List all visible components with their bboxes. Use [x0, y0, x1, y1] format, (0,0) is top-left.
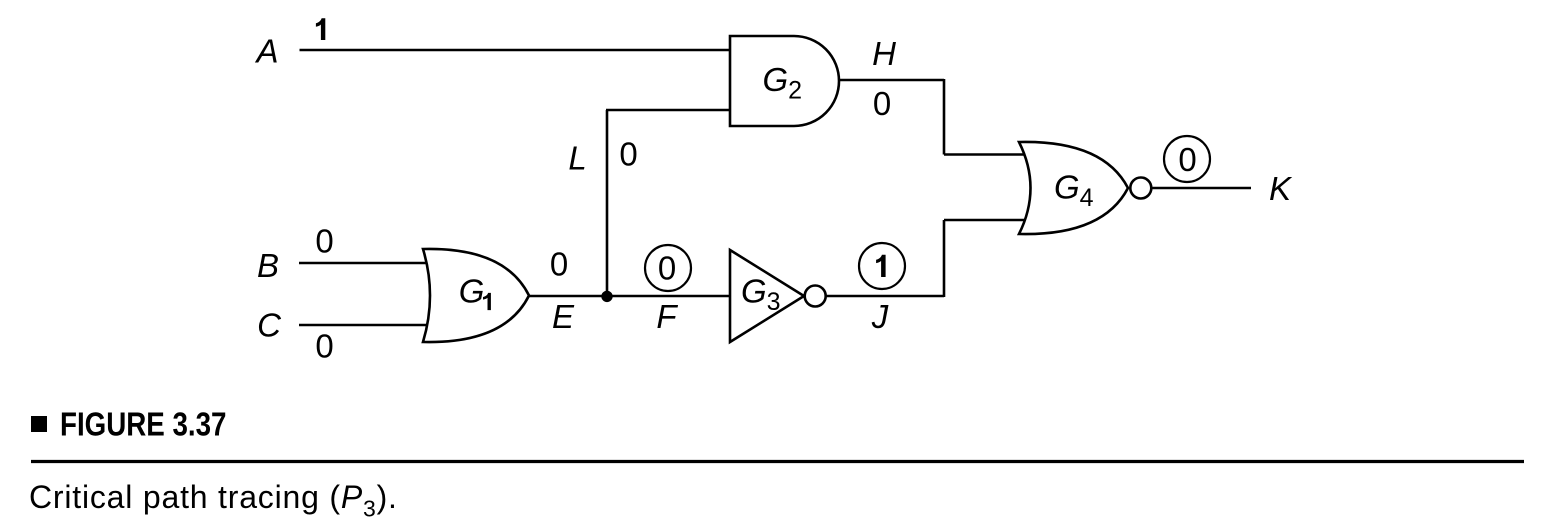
- wire L vertical (junction up): [606, 110, 609, 297]
- wire C input: [299, 324, 433, 327]
- value circle at node K: [1164, 136, 1210, 182]
- node E junction dot: [601, 291, 612, 302]
- and-gate G2 body: [730, 36, 839, 126]
- wire H vertical: [943, 79, 946, 155]
- svg-text:FIGURE 3.37: FIGURE 3.37: [60, 406, 227, 443]
- svg-text:0: 0: [315, 328, 333, 365]
- inverter G3 body: [730, 250, 804, 342]
- svg-text:A: A: [254, 33, 278, 70]
- nor-gate G4 bubble: [1130, 178, 1151, 199]
- value circle at node J: [859, 243, 905, 289]
- value 1 on wire A (drawn digit): [316, 18, 325, 40]
- value 1 in circle J (drawn digit): [876, 255, 886, 277]
- svg-text:0: 0: [619, 135, 637, 172]
- value circle at node F: [645, 245, 691, 291]
- svg-text:E: E: [552, 298, 575, 335]
- wire A input: [300, 49, 731, 52]
- wire J vertical: [943, 220, 946, 297]
- svg-text:F: F: [656, 298, 678, 335]
- svg-text:Critical path tracing (P3).: Critical path tracing (P3).: [29, 479, 398, 522]
- or-gate G1 body: [423, 249, 529, 342]
- wire K (G4 output): [1151, 187, 1251, 190]
- svg-text:0: 0: [1178, 141, 1196, 178]
- svg-text:C: C: [257, 307, 282, 344]
- gate label G1 subscript 1 (drawn digit): [483, 293, 491, 310]
- wire H horizontal (G2 output): [839, 79, 944, 82]
- svg-text:0: 0: [315, 223, 333, 260]
- inverter G3 bubble: [805, 286, 826, 307]
- svg-text:G: G: [459, 273, 485, 310]
- wire F (junction to G3): [602, 295, 731, 298]
- svg-text:B: B: [257, 247, 279, 284]
- svg-text:0: 0: [873, 85, 891, 122]
- nor-gate G4 body: [1019, 142, 1128, 234]
- svg-text:L: L: [568, 140, 586, 177]
- wire H to G4 top input: [944, 153, 1030, 156]
- wire L horizontal (to G2 lower input): [606, 109, 730, 112]
- figure marker square: [31, 416, 47, 432]
- svg-text:J: J: [871, 298, 889, 335]
- separator rule: [31, 460, 1524, 463]
- wire E (G1 output to junction): [529, 295, 612, 298]
- svg-text:K: K: [1269, 170, 1293, 207]
- svg-text:0: 0: [658, 250, 676, 287]
- svg-text:0: 0: [550, 246, 568, 283]
- svg-text:H: H: [872, 35, 896, 72]
- wire B input: [299, 262, 433, 265]
- wire J horizontal (G3 output): [826, 295, 944, 298]
- wire J to G4 bottom input: [944, 219, 1030, 222]
